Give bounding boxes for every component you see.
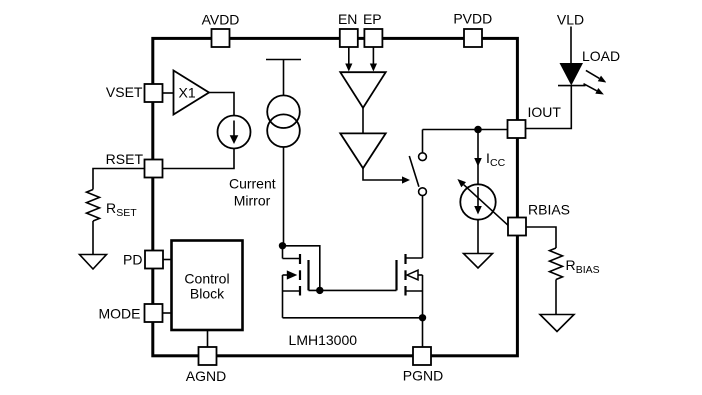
- svg-text:R: R: [566, 257, 576, 273]
- wire rail to current mirror: [283, 60, 285, 96]
- label VLD: [557, 12, 584, 28]
- transistor Q2 (output NMOS): [397, 254, 423, 318]
- laser diode D1: [558, 63, 586, 86]
- svg-text:SET: SET: [116, 207, 137, 219]
- wire RSET pin to resistor RSET: [93, 169, 145, 190]
- svg-text:PD: PD: [123, 252, 142, 268]
- svg-text:AVDD: AVDD: [202, 12, 240, 28]
- label LOAD: [582, 48, 620, 64]
- buffer amplifier A1 (EN/EP first stage): [340, 72, 385, 108]
- svg-text:Mirror: Mirror: [234, 193, 271, 209]
- transistor Q1 drain node junction: [279, 242, 286, 249]
- svg-text:VLD: VLD: [557, 12, 584, 28]
- wire control block to AGND pin: [207, 330, 209, 347]
- arrow EP pin into buffer: [370, 47, 377, 72]
- control block: [172, 241, 243, 331]
- transistor Q1 (diode-connected NMOS): [283, 246, 309, 318]
- pin RBIAS: [508, 202, 570, 236]
- ground below RSET: [80, 255, 107, 270]
- resistor RBIAS: [550, 248, 600, 280]
- svg-text:Block: Block: [190, 286, 225, 302]
- pin PVDD: [453, 11, 492, 48]
- svg-text:EP: EP: [363, 11, 382, 27]
- junction node source rail / PGND: [419, 314, 426, 321]
- wire I2 to ground: [477, 220, 479, 254]
- svg-text:Current: Current: [229, 175, 276, 191]
- light emission arrows: [584, 70, 607, 94]
- wire PD to control block: [163, 259, 172, 261]
- pin EP: [363, 11, 382, 47]
- wire MODE to control block: [163, 312, 172, 314]
- wire resistor RBIAS to ground: [555, 280, 557, 315]
- svg-text:IOUT: IOUT: [528, 104, 562, 120]
- wire IOUT node to switch S1: [422, 130, 424, 153]
- wire VSET to X1 input: [163, 92, 174, 94]
- wire RBIAS pin to resistor RBIAS: [526, 227, 556, 248]
- wire gate link Q1 to Q2: [309, 289, 397, 291]
- pin IOUT: [508, 104, 562, 138]
- svg-text:RBIAS: RBIAS: [528, 202, 570, 218]
- label LMH13000: [289, 332, 358, 348]
- svg-text:CC: CC: [490, 157, 506, 169]
- current mirror circles: [267, 95, 300, 147]
- wire A1 to A2: [362, 108, 364, 134]
- svg-text:LMH13000: LMH13000: [289, 332, 358, 348]
- pin RSET: [106, 151, 163, 178]
- pin PGND: [403, 347, 443, 384]
- wire source rail Q1 to Q2: [283, 317, 423, 319]
- wire I1 to RSET pin: [163, 149, 235, 169]
- ground below I2: [464, 254, 493, 269]
- svg-text:EN: EN: [338, 11, 357, 27]
- pin EN: [338, 11, 358, 47]
- pin AVDD: [202, 12, 240, 48]
- svg-text:LOAD: LOAD: [582, 48, 620, 64]
- wire X1 output to current source I1: [209, 93, 234, 116]
- pin PD: [123, 251, 163, 269]
- svg-text:RSET: RSET: [106, 151, 144, 167]
- pin AGND: [186, 347, 226, 384]
- pin VSET: [106, 84, 163, 102]
- wire laser diode to IOUT pin: [526, 86, 572, 129]
- svg-text:X1: X1: [179, 85, 196, 101]
- svg-text:PGND: PGND: [403, 368, 443, 384]
- svg-text:PVDD: PVDD: [453, 11, 492, 27]
- wire switch to IOUT pin: [423, 129, 508, 131]
- pin MODE: [99, 304, 163, 322]
- svg-text:BIAS: BIAS: [576, 264, 600, 276]
- switch S1: [409, 153, 426, 196]
- wire VLD to laser diode: [570, 27, 572, 64]
- label ICC: [486, 150, 506, 169]
- current source I1: [218, 116, 251, 149]
- label Current Mirror: [229, 175, 276, 208]
- svg-text:MODE: MODE: [99, 306, 141, 322]
- op-amp buffer X1: [174, 71, 210, 115]
- wire Q1 drain to gate loop: [283, 246, 320, 291]
- IC boundary box U1 LMH13000: [153, 38, 518, 355]
- wire A2 output arrow to switch S1: [363, 168, 410, 183]
- wire switch S1 to Q2 drain: [422, 196, 424, 258]
- supply rail bar above current mirror: [266, 59, 301, 61]
- svg-text:R: R: [106, 200, 116, 216]
- ICC current arrow: [474, 130, 482, 185]
- resistor RSET: [87, 190, 138, 222]
- arrow EN pin into buffer: [345, 47, 352, 72]
- svg-text:AGND: AGND: [186, 368, 226, 384]
- junction node at IOUT / ICC: [474, 126, 482, 134]
- svg-text:VSET: VSET: [106, 84, 143, 100]
- buffer amplifier A2 (EN/EP second stage): [340, 133, 385, 168]
- adjustable current source I2: [457, 179, 508, 226]
- wire resistor RSET to ground: [92, 221, 94, 255]
- wire to PGND pin: [422, 318, 424, 347]
- wire current mirror down to Q1 drain node: [283, 147, 285, 246]
- svg-text:Control: Control: [184, 271, 229, 287]
- junction node Q1 gate: [316, 287, 323, 294]
- ground below RBIAS: [540, 315, 574, 332]
